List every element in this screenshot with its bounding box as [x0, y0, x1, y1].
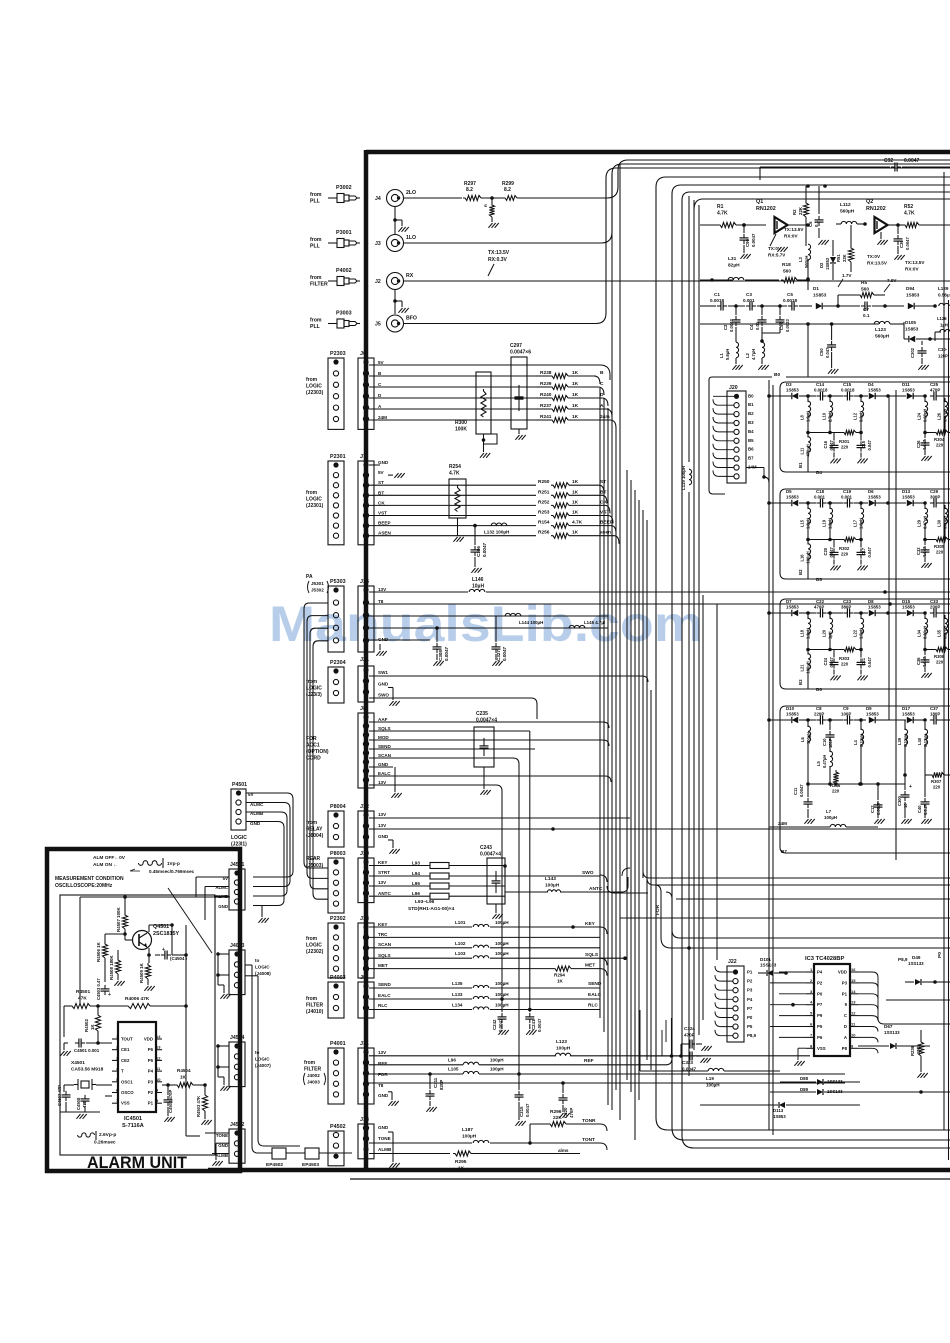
- diode D8: [861, 599, 890, 616]
- svg-text:L7: L7: [826, 809, 832, 814]
- svg-text:180P: 180P: [930, 712, 940, 717]
- svg-text:1S853: 1S853: [905, 327, 919, 332]
- svg-text:(C4504 ): (C4504 ): [170, 956, 188, 961]
- svg-text:0.0047: 0.0047: [444, 647, 449, 661]
- svg-text:P0: P0: [817, 991, 823, 996]
- svg-text:D94: D94: [906, 286, 915, 291]
- resistor R52 4.7K: [903, 204, 950, 228]
- wire right nested frame 3: [682, 192, 950, 1148]
- svg-text:L145 4.7µl: L145 4.7µl: [584, 620, 605, 625]
- svg-text:1K: 1K: [557, 979, 564, 984]
- svg-text:P2303: P2303: [330, 351, 346, 357]
- svg-text:R240: R240: [540, 392, 552, 398]
- svg-text:PLL: PLL: [310, 324, 321, 330]
- svg-text:J2: J2: [375, 279, 381, 285]
- svg-text:D88: D88: [800, 1076, 809, 1081]
- inductor L39 0.33uH: [897, 720, 908, 777]
- svg-text:TONE: TONE: [216, 1133, 228, 1138]
- svg-text:VST: VST: [378, 511, 387, 516]
- svg-text:FILTER: FILTER: [306, 1003, 324, 1009]
- wires J6 to bus: [369, 365, 610, 420]
- svg-text:0.0047: 0.0047: [502, 647, 507, 661]
- svg-text:C308: C308: [438, 650, 443, 661]
- buffer Q2 RN1202: [866, 199, 903, 233]
- svg-text:16: 16: [851, 967, 856, 972]
- svg-text:C7: C7: [863, 307, 869, 312]
- svg-text:MET: MET: [585, 963, 595, 969]
- capacitor C33: [930, 599, 950, 618]
- inductor L102 100uH: [369, 941, 600, 948]
- svg-text:R18: R18: [782, 262, 791, 268]
- resistor R18 560: [781, 262, 810, 290]
- svg-text:J11: J11: [360, 1041, 369, 1047]
- svg-text:560: 560: [861, 287, 869, 293]
- svg-text:13V: 13V: [378, 823, 387, 828]
- svg-text:470P: 470P: [569, 1108, 574, 1118]
- svg-text:+: +: [162, 947, 165, 953]
- wires IC3 left: [770, 972, 806, 1066]
- svg-text:L31: L31: [728, 256, 737, 262]
- resistor R303: [808, 647, 863, 666]
- svg-text:OSC1: OSC1: [121, 1079, 133, 1084]
- svg-text:C5: C5: [787, 292, 793, 297]
- svg-text:5.6µH: 5.6µH: [725, 349, 730, 360]
- svg-text:0.0047: 0.0047: [904, 158, 920, 164]
- svg-text:SW1: SW1: [378, 670, 388, 675]
- svg-text:MET: MET: [378, 963, 388, 968]
- svg-text:from: from: [304, 1060, 316, 1066]
- resistor R302: [808, 537, 863, 556]
- svg-text:S-7116A: S-7116A: [122, 1123, 144, 1129]
- resistor network R300 100K: [455, 372, 497, 458]
- capacitor C4507 47P: [57, 1085, 71, 1106]
- svg-text:B0: B0: [748, 393, 754, 398]
- svg-text:1S853: 1S853: [786, 605, 799, 610]
- svg-text:L102: L102: [455, 941, 466, 946]
- svg-text:P2: P2: [817, 980, 823, 985]
- svg-text:R252: R252: [538, 499, 550, 505]
- svg-text:47K: 47K: [78, 996, 87, 1002]
- svg-text:R307: R307: [931, 779, 942, 784]
- svg-text:8.2: 8.2: [466, 187, 473, 193]
- svg-text:B5: B5: [816, 577, 822, 582]
- diode D88 1SS133: [780, 1076, 860, 1085]
- diode D113 1S853: [700, 1102, 860, 1119]
- svg-text:L35: L35: [937, 629, 942, 637]
- svg-text:C40: C40: [917, 805, 922, 813]
- diode D94 1S853: [906, 286, 937, 309]
- svg-text:13V: 13V: [378, 880, 387, 885]
- svg-text:C20: C20: [823, 547, 828, 555]
- IC4501 S-7116A: [112, 1022, 162, 1129]
- svg-text:B4: B4: [748, 429, 754, 434]
- svg-text:from: from: [306, 936, 318, 942]
- diode D105 1S853: [904, 320, 950, 342]
- svg-text:R1: R1: [717, 204, 724, 210]
- connector J22: [715, 959, 757, 1042]
- svg-text:VDD: VDD: [838, 970, 847, 975]
- svg-text:TX:13.5V: TX:13.5V: [784, 227, 804, 232]
- svg-text:300P: 300P: [930, 495, 940, 500]
- diode D11: [889, 382, 927, 399]
- svg-text:100µH: 100µH: [706, 1083, 720, 1088]
- svg-text:220: 220: [936, 660, 944, 665]
- svg-text:220: 220: [841, 445, 849, 450]
- svg-text:SEND: SEND: [378, 982, 391, 987]
- svg-text:C14: C14: [816, 382, 825, 387]
- svg-text:FILTER: FILTER: [310, 282, 328, 288]
- wire BFO: [404, 168, 950, 324]
- svg-text:R241: R241: [540, 414, 552, 420]
- inductor L134 100uH: [369, 1003, 600, 1010]
- svg-text:D13: D13: [902, 489, 911, 494]
- label 1.7V: [838, 273, 852, 287]
- svg-text:0.047: 0.047: [829, 657, 834, 668]
- label ALARM UNIT: [87, 1154, 187, 1172]
- svg-text:0.0047: 0.0047: [751, 233, 756, 247]
- diode D15: [889, 599, 927, 616]
- svg-text:L123: L123: [556, 1039, 567, 1045]
- inductor L4 0.33uH: [853, 720, 864, 786]
- wire right nested frame 2: [672, 185, 950, 1140]
- svg-text:L135: L135: [452, 981, 463, 986]
- wire J15 T8: [369, 602, 950, 606]
- svg-text:1LO: 1LO: [406, 235, 416, 241]
- svg-text:P1: P1: [842, 991, 848, 996]
- inductor L26: [937, 398, 948, 433]
- svg-text:1µH: 1µH: [940, 323, 948, 328]
- resistor R296 22K: [528, 1109, 607, 1145]
- svg-text:0.0018: 0.0018: [710, 298, 724, 303]
- svg-text:0.001: 0.001: [814, 495, 826, 500]
- svg-text:L101: L101: [455, 920, 466, 925]
- svg-text:MOD: MOD: [378, 735, 389, 740]
- svg-text:J5: J5: [375, 322, 381, 328]
- resistor R1 4.7K: [700, 204, 766, 228]
- node B4: [816, 470, 822, 475]
- svg-text:T: T: [121, 1069, 124, 1074]
- diode D17 1S853: [889, 706, 927, 723]
- svg-text:100µH: 100µH: [462, 1134, 477, 1140]
- capacitor C302: [910, 341, 929, 370]
- svg-text:22K: 22K: [842, 254, 847, 262]
- svg-text:1S853: 1S853: [902, 605, 915, 610]
- wire right nested frame 1: [656, 177, 950, 1130]
- svg-text:R4508 180K: R4508 180K: [109, 955, 114, 980]
- svg-text:13V: 13V: [378, 587, 387, 592]
- capacitor C24: [823, 650, 841, 681]
- inductor L105 100uH: [369, 1067, 845, 1075]
- svg-text:P5: P5: [747, 1024, 753, 1029]
- svg-text:GND: GND: [218, 904, 228, 909]
- svg-text:J4002: J4002: [307, 1073, 320, 1078]
- svg-text:KEY: KEY: [378, 922, 387, 927]
- svg-text:0.0047: 0.0047: [729, 319, 734, 332]
- jack J5 (BFO): [375, 315, 417, 332]
- connector J20: [713, 385, 769, 483]
- vertical rails filter: [769, 380, 896, 1135]
- svg-text:C16: C16: [823, 440, 828, 448]
- svg-text:LOGIC: LOGIC: [306, 497, 322, 503]
- svg-text:to: to: [255, 958, 260, 963]
- svg-text:J9: J9: [360, 975, 366, 981]
- connector P8004: [306, 804, 346, 847]
- capacitor C6 0.1: [808, 186, 829, 245]
- svg-text:100µH: 100µH: [495, 951, 509, 956]
- svg-text:L34: L34: [917, 629, 922, 637]
- svg-text:0.001: 0.001: [841, 495, 853, 500]
- svg-text:asen: asen: [600, 531, 611, 536]
- svg-text:C241: C241: [531, 1019, 536, 1030]
- svg-text:CORD: CORD: [306, 756, 321, 762]
- svg-text:+: +: [108, 992, 111, 998]
- inductor L187 100uH: [369, 1127, 607, 1150]
- connector P2302: [306, 916, 346, 978]
- svg-text:ST: ST: [600, 479, 606, 485]
- svg-text:P2: P2: [747, 979, 753, 984]
- diode D4: [861, 382, 890, 399]
- svg-text:GND: GND: [378, 1093, 389, 1098]
- svg-text:P8003: P8003: [330, 851, 346, 857]
- svg-text:R253: R253: [538, 510, 550, 516]
- resistor R251 1K: [538, 489, 607, 503]
- svg-text:0.047: 0.047: [867, 547, 872, 558]
- inductor L103 100uH: [369, 951, 627, 965]
- svg-text:C: C: [600, 381, 604, 387]
- svg-text:L95: L95: [412, 881, 420, 886]
- svg-text:B0: B0: [774, 372, 780, 378]
- svg-text:0.047: 0.047: [829, 440, 834, 451]
- resistor R250 1K: [538, 479, 606, 493]
- pointer line: [168, 888, 212, 953]
- resistor R2 22K: [792, 186, 809, 246]
- wires J7: [369, 465, 536, 536]
- node B6: [816, 687, 822, 692]
- svg-text:L123: L123: [875, 327, 886, 333]
- connector J21: [358, 657, 389, 702]
- svg-text:D89: D89: [800, 1087, 809, 1092]
- resistor R4509 1K: [139, 962, 155, 990]
- resistor R298 to ground: [483, 196, 499, 228]
- svg-text:(J23/3): (J23/3): [306, 692, 322, 698]
- inductor L18: [800, 613, 811, 650]
- svg-text:0.0047×4: 0.0047×4: [480, 852, 501, 858]
- svg-text:LOGIC: LOGIC: [255, 1057, 270, 1062]
- svg-text:from: from: [310, 192, 322, 198]
- resistor R4501 47K: [70, 989, 90, 1009]
- capacitor C306 0.0047: [471, 526, 488, 573]
- svg-text:L133: L133: [452, 992, 463, 997]
- svg-text:1K: 1K: [572, 479, 579, 485]
- svg-text:J20: J20: [729, 385, 738, 391]
- capacitor C9 100P: [841, 706, 866, 725]
- svg-text:RX:13.5V: RX:13.5V: [867, 261, 888, 266]
- svg-text:(J4007): (J4007): [255, 1063, 271, 1068]
- diode D89 1SS133: [770, 1087, 950, 1095]
- capacitor C16: [823, 433, 841, 464]
- svg-text:P4003: P4003: [330, 975, 346, 981]
- svg-text:0.047: 0.047: [922, 656, 927, 667]
- svg-text:R238: R238: [540, 370, 552, 376]
- diode D5: [780, 489, 810, 506]
- svg-text:P4: P4: [747, 997, 753, 1002]
- svg-text:C4507 47P: C4507 47P: [57, 1085, 62, 1106]
- connector J11: [358, 1041, 389, 1104]
- inductor L29: [917, 503, 928, 540]
- plug P3003: [310, 311, 360, 331]
- capacitor C29: [930, 489, 950, 508]
- svg-text:C24: C24: [823, 657, 828, 665]
- resistor R239 1K: [536, 381, 604, 395]
- svg-text:from: from: [306, 377, 318, 383]
- svg-text:D5: D5: [786, 489, 792, 494]
- svg-text:7.9V: 7.9V: [887, 278, 897, 283]
- svg-text:LOGIC: LOGIC: [255, 965, 270, 970]
- jack J4 (2LO): [375, 190, 416, 207]
- svg-text:1Vp-p: 1Vp-p: [167, 861, 180, 866]
- svg-text:10µH: 10µH: [472, 584, 484, 590]
- svg-text:L94: L94: [412, 871, 420, 876]
- terminal EP4502: [266, 1148, 286, 1168]
- wire right vertical bundle: [689, 196, 717, 1076]
- svg-text:VSS: VSS: [121, 1101, 130, 1106]
- svg-text:C242: C242: [492, 1019, 497, 1030]
- svg-text:LOGIC: LOGIC: [306, 384, 322, 390]
- transistor Q4501 2SC1815Y: [133, 924, 180, 950]
- svg-text:CK: CK: [378, 500, 385, 505]
- svg-text:D10: D10: [786, 706, 795, 711]
- svg-text:P2: P2: [148, 1090, 154, 1095]
- svg-text:P8: P8: [842, 1046, 848, 1051]
- connector J10: [358, 851, 391, 903]
- diode D10 1S853: [767, 706, 810, 723]
- svg-text:100µH: 100µH: [495, 941, 509, 946]
- svg-text:C19: C19: [843, 489, 852, 494]
- svg-text:P1: P1: [747, 970, 753, 975]
- svg-text:5V: 5V: [378, 470, 385, 475]
- svg-text:C11: C11: [793, 787, 798, 795]
- svg-text:R254: R254: [449, 464, 461, 470]
- svg-text:D11: D11: [902, 382, 910, 387]
- wire J11 13V with L123: [369, 1039, 810, 1056]
- connector P8003: [306, 851, 346, 913]
- svg-text:L1: L1: [719, 352, 724, 358]
- diode D1 1S853: [813, 286, 840, 309]
- plug P4002: [310, 268, 360, 288]
- resistor R241 1K: [536, 414, 616, 428]
- capacitor C235 0.0047x4: [474, 711, 497, 795]
- svg-text:from: from: [306, 679, 318, 685]
- svg-text:8.2: 8.2: [504, 187, 511, 193]
- IC3 TC4028BP: [805, 956, 858, 1056]
- svg-text:SQLS: SQLS: [378, 726, 391, 731]
- svg-text:L17: L17: [853, 519, 858, 527]
- node B2: [798, 569, 803, 575]
- svg-text:1S853: 1S853: [868, 495, 881, 500]
- connector J14: [358, 1117, 392, 1159]
- node B1: [798, 462, 803, 468]
- svg-text:L30: L30: [937, 519, 942, 527]
- inductor L17: [853, 503, 864, 540]
- svg-text:1S853: 1S853: [773, 1114, 786, 1119]
- svg-text:FOR: FOR: [655, 904, 661, 915]
- diode D6: [861, 489, 890, 506]
- svg-text:REF: REF: [584, 1058, 594, 1064]
- capacitor C22: [808, 599, 843, 618]
- svg-text:P1: P1: [148, 1101, 154, 1106]
- svg-text:R4506 1K: R4506 1K: [96, 941, 101, 962]
- svg-text:L119 100µH: L119 100µH: [681, 466, 686, 490]
- svg-text:C22: C22: [816, 599, 825, 604]
- wire bus center verticals: [600, 164, 651, 1140]
- inductor L31 82uH: [700, 256, 779, 282]
- svg-text:RX:5.7V: RX:5.7V: [768, 253, 786, 258]
- svg-text:C37: C37: [930, 706, 939, 711]
- svg-text:560µH: 560µH: [875, 334, 890, 340]
- svg-text:P4502: P4502: [330, 1124, 346, 1130]
- svg-text:22K: 22K: [553, 1115, 562, 1121]
- svg-text:SCAN: SCAN: [378, 942, 392, 947]
- svg-text:J10: J10: [360, 851, 369, 857]
- label P0 rotated: [937, 952, 943, 958]
- svg-text:SWO: SWO: [378, 693, 389, 698]
- svg-text:12: 12: [851, 1011, 856, 1016]
- inductor L129 0.56uH: [938, 286, 950, 306]
- svg-text:SQLS: SQLS: [585, 952, 599, 958]
- svg-text:ALMC: ALMC: [215, 885, 229, 890]
- svg-text:P4: P4: [148, 1069, 154, 1074]
- svg-text:1SS133: 1SS133: [908, 961, 924, 966]
- svg-text:TX:13.5V: TX:13.5V: [905, 260, 925, 265]
- terminal EP4503: [302, 1148, 319, 1168]
- svg-text:0.047: 0.047: [867, 440, 872, 451]
- svg-text:EP4503: EP4503: [302, 1162, 319, 1168]
- wire SWO run: [369, 592, 630, 876]
- svg-text:BFO: BFO: [406, 316, 417, 322]
- svg-text:T8: T8: [378, 1083, 384, 1088]
- svg-text:BEEP: BEEP: [378, 521, 391, 526]
- inductor L144 100uH: [505, 613, 543, 625]
- svg-text:D49: D49: [912, 955, 921, 960]
- svg-text:L144 100µH: L144 100µH: [519, 620, 543, 625]
- svg-text:2.6Vp-p: 2.6Vp-p: [99, 1132, 116, 1138]
- label FOR rotated: [655, 904, 661, 915]
- svg-text:10K: 10K: [916, 1046, 921, 1054]
- svg-text:C4501 0.001: C4501 0.001: [74, 1048, 100, 1053]
- wire row divider 4: [780, 706, 950, 853]
- svg-text:1K: 1K: [572, 370, 579, 376]
- svg-text:14: 14: [851, 989, 856, 994]
- svg-text:0.001: 0.001: [743, 298, 755, 303]
- resistor R4006 47K: [125, 996, 150, 1009]
- svg-text:B7: B7: [748, 456, 754, 461]
- inductor L19: [822, 503, 833, 540]
- svg-text:J5302: J5302: [311, 588, 324, 593]
- svg-text:C235: C235: [476, 711, 488, 717]
- svg-text:IC3 TC4028BP: IC3 TC4028BP: [805, 956, 844, 962]
- svg-text:L26: L26: [937, 412, 942, 420]
- svg-text:RN1202: RN1202: [866, 206, 886, 212]
- label TX:13.5V RX:0.3V: [488, 250, 510, 276]
- svg-text:1S853: 1S853: [825, 257, 830, 270]
- svg-text:Q2: Q2: [866, 199, 873, 205]
- svg-text:TONR: TONR: [582, 1118, 596, 1124]
- svg-text:C33: C33: [930, 599, 939, 604]
- diode D101 1SS133: [758, 957, 788, 976]
- svg-text:ALM OFF←0V: ALM OFF←0V: [93, 855, 126, 861]
- wires J4501 into alarm: [196, 877, 229, 920]
- svg-text:D4: D4: [868, 382, 874, 387]
